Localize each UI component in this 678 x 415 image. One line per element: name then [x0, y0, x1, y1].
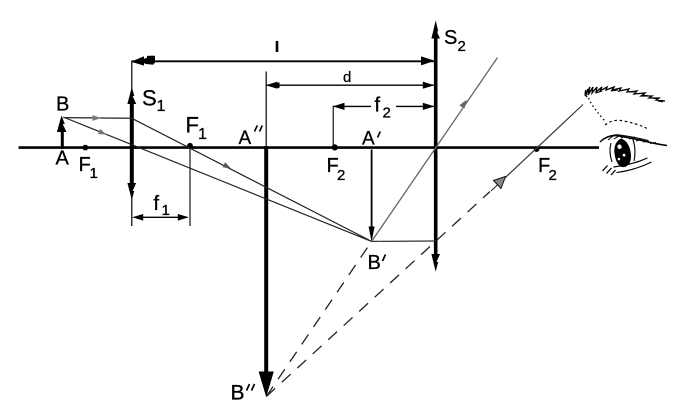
ray 1: B parallel to axis then through F1 to B'	[64, 115, 372, 241]
eyeball contour right	[633, 138, 635, 161]
svg-text:2: 2	[337, 167, 345, 184]
svg-text:B: B	[56, 94, 69, 116]
svg-text:S: S	[142, 86, 157, 111]
extension line below F1 right	[189, 148, 191, 226]
svg-text:F: F	[186, 113, 199, 138]
ray 2: B through lens centre to B'	[63, 117, 371, 241]
eyelid fold	[605, 120, 648, 129]
label B''	[231, 382, 255, 405]
dashed virtual ray B'' through S2	[266, 192, 490, 397]
brow-nose dotted contour	[589, 98, 605, 121]
lower lid	[614, 158, 648, 167]
svg-text:A: A	[56, 148, 70, 170]
label F2 left	[327, 155, 346, 184]
object arrow AB	[57, 116, 67, 150]
lower sweep	[617, 162, 652, 173]
optical axis	[19, 146, 600, 149]
label B'	[368, 252, 386, 274]
label S1	[142, 86, 166, 116]
lens S2	[431, 21, 440, 272]
label F1 left	[79, 154, 98, 182]
dimension f2	[333, 103, 435, 110]
exit ray through S2 centre toward eye	[372, 58, 498, 242]
brow left hook	[585, 90, 587, 97]
dimension d	[266, 82, 435, 89]
dashed virtual ray B'' to B'	[266, 241, 371, 396]
svg-text:f: f	[375, 95, 381, 117]
svg-text:f: f	[154, 193, 160, 215]
svg-text:1: 1	[90, 165, 98, 182]
lash hatching	[608, 136, 656, 144]
intermediate image line A'' B''	[259, 72, 274, 398]
svg-text:2: 2	[458, 38, 466, 55]
iris highlights	[617, 144, 621, 149]
focal point F2 left dot	[332, 144, 338, 150]
lower lashes	[603, 166, 616, 176]
exit ray through F2 toward eye	[491, 105, 583, 192]
svg-text:1: 1	[157, 98, 166, 115]
svg-text:A: A	[362, 129, 375, 150]
svg-text:1: 1	[198, 126, 207, 143]
label F1 right	[186, 113, 208, 144]
lens S1	[127, 61, 136, 226]
dimension f1	[132, 214, 189, 221]
dimension l	[131, 55, 435, 65]
focal point F2 right dot	[534, 146, 540, 152]
svg-text:S: S	[444, 27, 457, 49]
eyebrow lower dashes	[596, 90, 663, 102]
svg-text:B: B	[368, 252, 381, 274]
ray B' to S2 (parallel)	[372, 240, 436, 242]
label F2 right	[538, 155, 557, 184]
focal point F1 right dot	[187, 143, 193, 149]
label A''	[239, 126, 263, 150]
svg-text:d: d	[343, 69, 351, 86]
svg-text:2: 2	[383, 105, 391, 122]
inner eye contour	[610, 143, 612, 162]
upper lid edge	[600, 136, 667, 146]
label l	[276, 41, 279, 52]
iris dark blob	[614, 139, 631, 168]
upper lid second stroke	[604, 135, 648, 141]
label A'	[362, 129, 380, 150]
image arrow A' B'	[369, 150, 375, 243]
label f1	[154, 193, 170, 219]
svg-text:1: 1	[162, 202, 170, 219]
label f2	[375, 95, 391, 122]
eyebrow scribble	[585, 87, 665, 101]
focal point F1 left dot	[82, 145, 88, 151]
svg-text:B: B	[231, 382, 245, 405]
label S2	[444, 27, 466, 55]
svg-text:2: 2	[549, 167, 557, 184]
svg-text:A: A	[239, 128, 252, 149]
eye sketch	[585, 87, 667, 175]
extension line above F2 left	[332, 106, 334, 146]
